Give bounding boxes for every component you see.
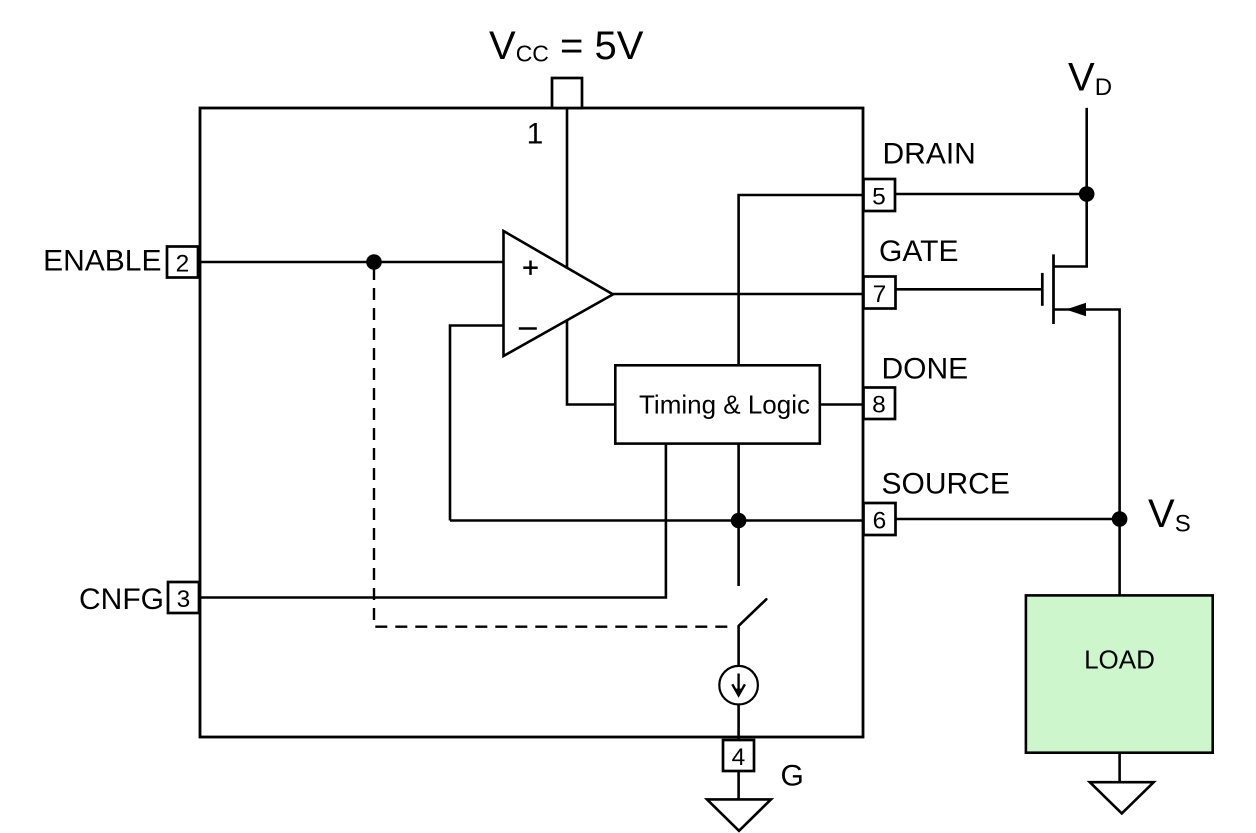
wire op-amp feedback from - input to source net — [450, 326, 504, 521]
svg-text:4: 4 — [732, 744, 746, 771]
svg-text:VCC = 5V: VCC = 5V — [489, 24, 644, 68]
pin 7 box — [864, 277, 896, 309]
op-amp - symbol — [519, 327, 537, 330]
dashed control line from ENABLE to switch — [374, 268, 734, 627]
svg-text:7: 7 — [873, 281, 887, 308]
junction dot node SOURCE internal — [731, 513, 747, 529]
timing and logic block — [615, 365, 820, 443]
wire MOSFET source to VS node and LOAD — [1054, 310, 1120, 596]
MOSFET source arrow — [1066, 303, 1086, 316]
wire switch pivot to current source — [737, 626, 740, 666]
svg-text:ENABLE: ENABLE — [43, 245, 161, 278]
svg-text:1: 1 — [527, 118, 544, 151]
pin 6 box — [864, 503, 896, 535]
op-amp + symbol — [523, 261, 537, 275]
wire pin 5 to VD node — [895, 193, 1087, 196]
wire timing block to pin 8 done — [820, 403, 863, 406]
current source I1 — [719, 666, 758, 705]
junction dot node VS — [1112, 511, 1128, 527]
pin 8 box — [864, 388, 896, 420]
switch S1 blade — [739, 599, 767, 625]
wire drain net internal to pin 5 — [739, 195, 863, 365]
MOSFET gate bar — [1041, 273, 1044, 306]
ground (load) — [1090, 782, 1154, 813]
svg-text:3: 3 — [177, 586, 191, 613]
svg-text:SOURCE: SOURCE — [882, 468, 1010, 501]
pin 2 box — [167, 247, 198, 278]
svg-text:6: 6 — [873, 507, 887, 534]
wire op-amp output to pin 7 gate — [613, 293, 863, 296]
pin 1 box — [552, 78, 582, 108]
wire VCC vertical from pin 1 — [567, 108, 615, 405]
MOSFET channel bar — [1052, 254, 1055, 324]
wire LOAD to ground — [1118, 753, 1121, 783]
wire ENABLE to op-amp + input — [198, 261, 504, 264]
IC boundary U1 — [200, 108, 863, 737]
svg-text:2: 2 — [176, 250, 190, 277]
junction dot node VD — [1079, 186, 1095, 202]
svg-text:Timing & Logic: Timing & Logic — [639, 390, 810, 420]
wire source net internal to pin 6 — [450, 519, 863, 522]
wire pin 7 to MOSFET gate — [896, 288, 1042, 291]
wire current source to pin 4 — [737, 705, 740, 741]
svg-text:LOAD: LOAD — [1084, 645, 1155, 675]
wire VD supply down to MOSFET drain — [1054, 108, 1087, 267]
wire pin 6 to VS node — [895, 518, 1120, 521]
MOSFET Q1 — [1042, 254, 1053, 324]
wire source junction down to switch contact — [737, 521, 740, 587]
LOAD block — [1026, 595, 1213, 752]
ground (pin 4 / G) — [707, 799, 771, 830]
svg-text:DONE: DONE — [882, 353, 969, 386]
wire pin 4 to ground — [737, 771, 740, 799]
svg-text:GATE: GATE — [879, 235, 958, 268]
svg-text:8: 8 — [872, 392, 886, 419]
pin 3 box — [168, 582, 199, 613]
junction dot node ENABLE — [366, 254, 382, 270]
op-amp U2 comparator — [504, 231, 614, 356]
svg-text:5: 5 — [872, 183, 886, 210]
svg-text:CNFG: CNFG — [79, 583, 164, 616]
wire timing block bottom to source net junction — [737, 444, 740, 521]
pin 4 box — [723, 740, 754, 771]
pin 5 box — [864, 179, 896, 211]
svg-text:DRAIN: DRAIN — [883, 138, 976, 171]
svg-text:G: G — [781, 760, 804, 793]
wire CNFG to timing block — [199, 444, 666, 598]
